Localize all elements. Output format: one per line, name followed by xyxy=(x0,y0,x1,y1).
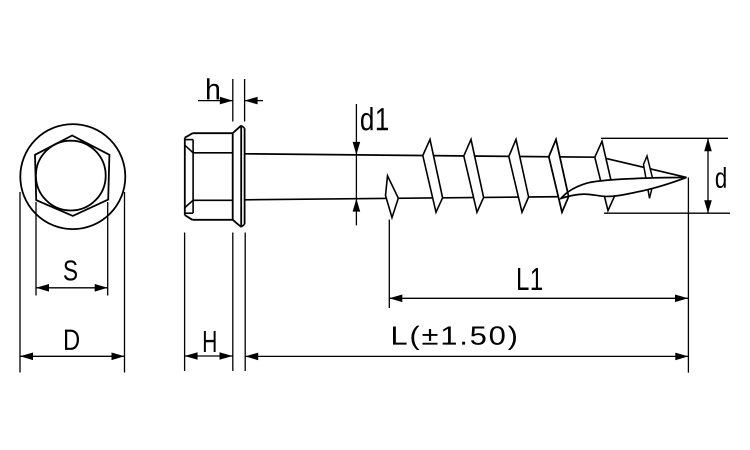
thread start crest xyxy=(386,176,399,218)
label D xyxy=(65,330,79,350)
thread crest 4 outline over flute xyxy=(549,139,569,212)
label H xyxy=(204,331,216,352)
flange bearing face xyxy=(244,128,246,224)
dimension L line xyxy=(245,353,688,361)
thread crest 3 xyxy=(509,139,529,212)
hex head side view: left edge xyxy=(184,138,186,215)
hex head side view: bottom corner facet diagonal xyxy=(185,200,193,207)
extension line d bottom xyxy=(604,212,730,214)
dimension h leader right xyxy=(245,97,263,105)
dimension S line xyxy=(36,284,108,292)
dimension L1 line xyxy=(389,295,688,303)
drill point upper silhouette xyxy=(606,158,687,177)
hex head side view: top facet small horizontal xyxy=(185,139,193,141)
shank top line xyxy=(245,154,595,157)
hex head side view: right edge (flange junction) xyxy=(232,133,234,220)
extension line L1 left xyxy=(388,220,390,309)
drill point flute xyxy=(561,177,687,198)
hex head side view: bottom facet small horizontal xyxy=(185,212,193,214)
dimension H line xyxy=(185,352,233,360)
thread crest 5 xyxy=(595,141,615,210)
dimension d line xyxy=(704,138,712,213)
label h xyxy=(207,78,219,99)
thread crest 1 xyxy=(423,139,443,212)
dimension D line xyxy=(20,353,125,361)
dimension h leader left xyxy=(198,97,233,105)
flange top corner xyxy=(241,126,244,129)
extension line H left xyxy=(184,233,186,372)
extension line tip right xyxy=(687,178,689,373)
flange outer circle (front view) xyxy=(20,124,125,229)
extension line bearing face xyxy=(244,233,246,372)
extension line h right xyxy=(244,79,246,122)
extension line h left xyxy=(232,79,234,122)
extension line flange junction xyxy=(232,233,234,372)
hex head side view: top corner facet diagonal xyxy=(185,145,193,153)
extension line d top xyxy=(601,137,728,139)
hex head side view: bottom edge xyxy=(192,219,232,221)
extension line D right xyxy=(124,192,126,373)
extension line D left xyxy=(19,192,21,373)
small point crest xyxy=(644,156,654,198)
hex head side view: lower facet line xyxy=(193,199,233,201)
hex head outline (front view) xyxy=(35,136,109,216)
inscribed circle of hex (front view) xyxy=(36,141,106,211)
flange bottom corner xyxy=(241,224,244,227)
label L1 xyxy=(518,268,542,290)
label L tolerance xyxy=(393,326,516,350)
hex head side view: top-left chamfer xyxy=(185,133,193,138)
extension line S right xyxy=(107,202,109,296)
label S xyxy=(64,260,77,280)
flange top diagonal xyxy=(233,126,242,134)
flange bottom diagonal xyxy=(233,220,242,227)
label d1 xyxy=(361,107,388,131)
hex head side view: bottom-left chamfer xyxy=(185,215,193,220)
thread crest 2 xyxy=(464,139,484,212)
thread crest 4 xyxy=(549,139,569,212)
hex head side view: left facet vertical xyxy=(192,140,194,214)
extension line S left xyxy=(35,202,37,296)
hex head side view: upper facet line xyxy=(193,152,233,154)
shank bottom line xyxy=(245,197,566,200)
flange rim line xyxy=(240,126,242,228)
hex head side view: top edge xyxy=(193,132,233,134)
dimension d1 line xyxy=(353,104,361,225)
label d xyxy=(716,167,726,188)
